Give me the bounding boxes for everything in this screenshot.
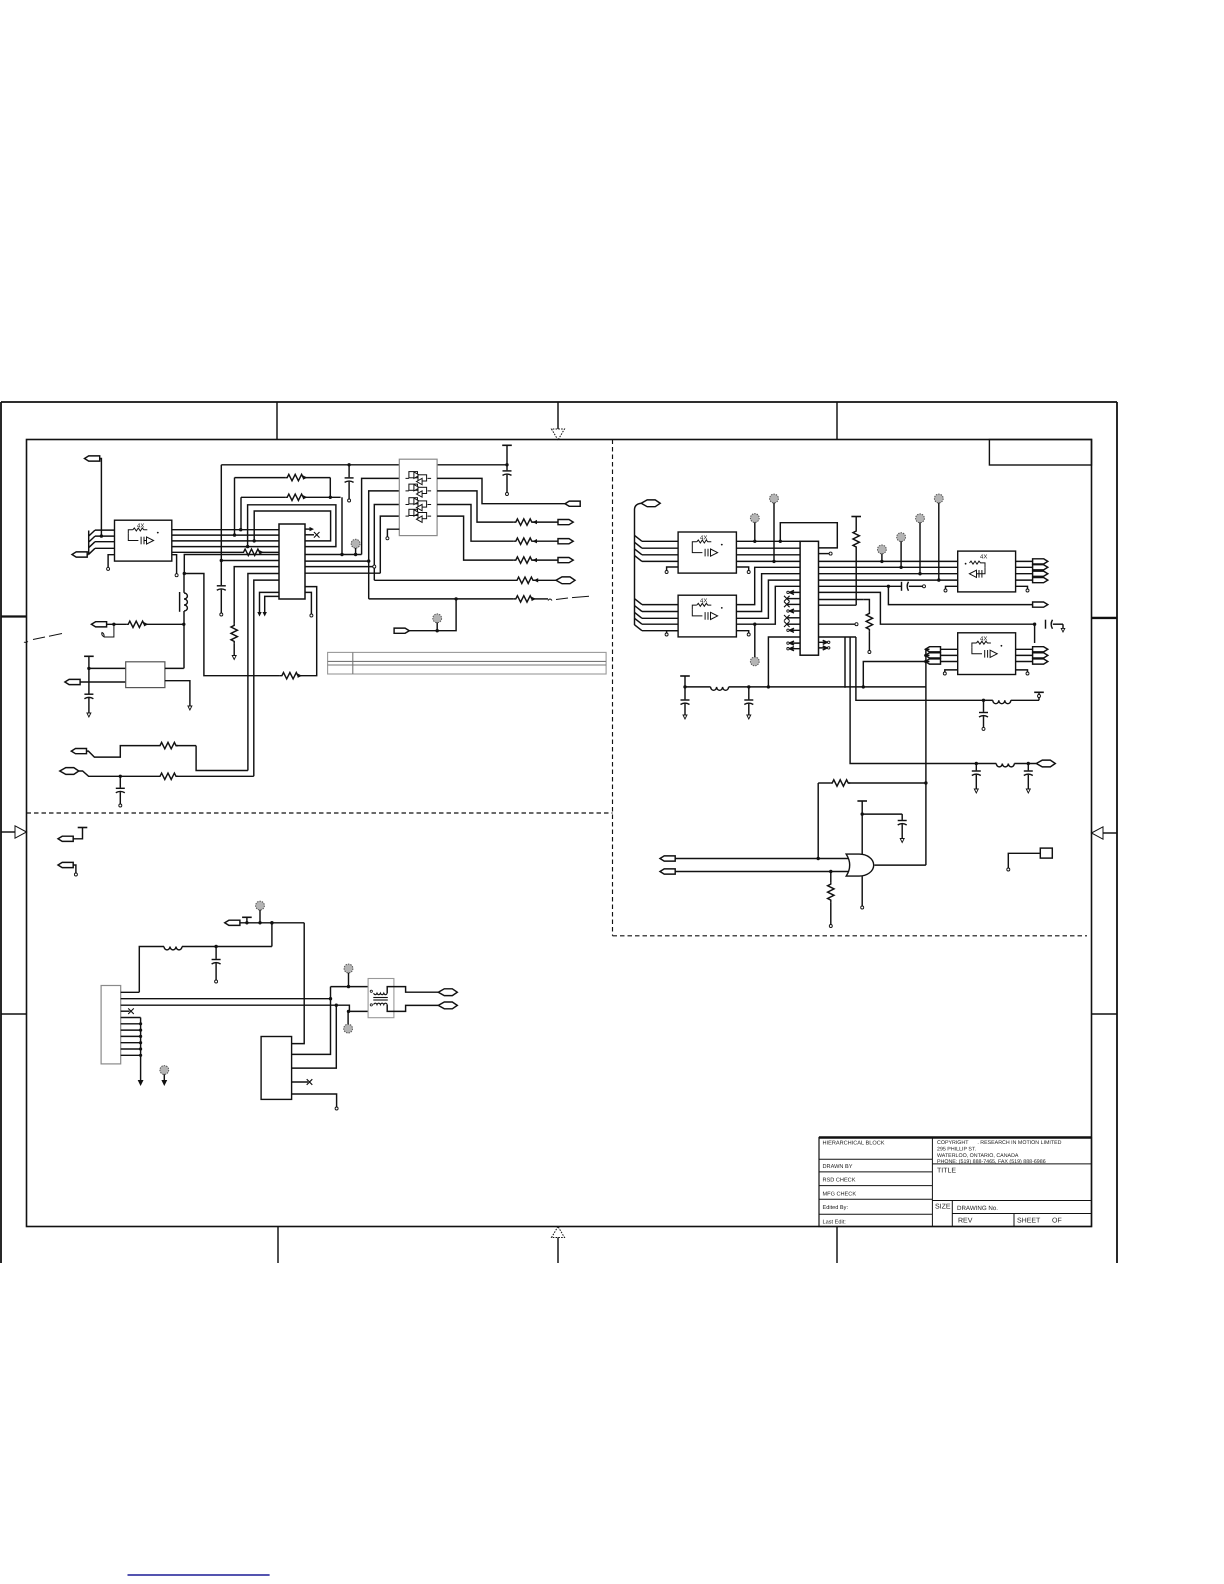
U8 input flags: [925, 647, 957, 664]
test point TP13: [344, 1011, 353, 1033]
resistor R3 wire: [172, 549, 279, 555]
wire U1 to L1: [184, 555, 279, 574]
node junctions: [354, 553, 371, 563]
svg-text:4X: 4X: [980, 554, 987, 561]
module K1: [261, 1037, 292, 1100]
svg-text:TITLE: TITLE: [937, 1168, 956, 1175]
second filter row: [975, 762, 1037, 767]
U8 output flags: [1016, 647, 1048, 664]
svg-text:SHEET: SHEET: [1017, 1218, 1041, 1225]
sheet outer frame left: [0, 402, 2, 1263]
svg-text:COPYRIGHT . RESEARCH IN M: COPYRIGHT . RESEARCH IN MOTION LIMITED: [937, 1140, 1062, 1146]
resistor R13: [158, 773, 254, 779]
U6 left pins column: [787, 590, 800, 594]
connector flag Q1: [635, 500, 661, 625]
U3 output row 1: [437, 478, 565, 503]
U7 internal RC-buffer mirrored: [965, 561, 985, 577]
connector flag Q3 oval: [1036, 760, 1055, 767]
U4 pin bottom-left: [667, 567, 679, 571]
power bar VCC3: [851, 517, 861, 530]
resistor R5: [514, 538, 558, 544]
svg-text:REV: REV: [958, 1218, 973, 1225]
test point TP4: [770, 494, 779, 563]
wire R14 to U6: [819, 604, 857, 606]
bundle wire 5: [819, 585, 902, 587]
U5 pin bottom-right: [736, 631, 748, 633]
wire L2 row continue: [768, 686, 926, 688]
power bar VCC1: [502, 445, 512, 466]
broken leader mark left: [24, 634, 62, 643]
test point TP12: [344, 964, 353, 987]
connector flag P2: [72, 552, 89, 557]
power bar VCC5: [857, 801, 867, 855]
capacitor C14: [212, 947, 221, 984]
wire drop to module K1: [292, 923, 305, 1044]
U3 output row 2: [437, 491, 514, 522]
svg-text:OF: OF: [1052, 1218, 1062, 1225]
transformer T2: [368, 979, 438, 1018]
zone tick top-right: [836, 402, 838, 440]
U5 internal RC-buffer symbol: [692, 603, 722, 619]
resistor R11: [126, 621, 184, 627]
wire loop A: [248, 505, 336, 547]
wire R1 right drop: [329, 478, 331, 498]
connector flag O3: [558, 539, 573, 544]
K1 pin4 nc: [292, 1079, 313, 1085]
top filter row: [982, 692, 1044, 703]
wire top rail: [221, 464, 507, 466]
K1 pin2 wire: [292, 987, 331, 1055]
top-right reference box: [989, 440, 1091, 466]
U1 pin nc X: [305, 532, 320, 538]
wire VCC to M1: [89, 667, 126, 669]
connector flag B4 oval: [438, 989, 457, 996]
zone tick left-lower: [1, 1013, 27, 1015]
resistor R9 vertical: [231, 623, 237, 659]
center mark arrow top: [552, 402, 565, 440]
connector flag P7: [60, 768, 158, 777]
staircase U5 to U6: [736, 567, 800, 604]
U7 pin bottom-right: [1016, 586, 1028, 589]
U1 bottom leg right: [305, 592, 311, 614]
resistor R2 row: [241, 494, 341, 500]
U6 right pins column: [819, 623, 859, 650]
node junction: [1033, 623, 1036, 626]
riser A: [844, 637, 846, 688]
capacitor C1: [345, 465, 354, 502]
center mark arrow bottom: [552, 1227, 565, 1264]
wire R2 right drop: [341, 497, 343, 554]
U1 bottom leg 1: [260, 592, 280, 612]
U2 pin bottom-left: [108, 555, 114, 568]
output row 5: [374, 579, 515, 581]
zone tick bottom-left: [277, 1227, 279, 1264]
IC U6: [800, 541, 818, 655]
U1 pin arrow right: [305, 527, 314, 531]
feedback loop wire: [184, 574, 316, 676]
sheet outer frame right: [1116, 402, 1118, 1263]
node junction: [214, 945, 217, 948]
wire U1 to lower row B: [254, 580, 279, 776]
zone tick bottom-right: [836, 1227, 838, 1264]
test point TP2: [433, 614, 442, 633]
U1 bottom leg 2: [265, 596, 279, 612]
resistor R6: [514, 557, 558, 563]
loop below U6: [768, 637, 856, 687]
resistor R7: [515, 577, 556, 583]
terminator block: [1007, 848, 1053, 871]
center mark arrow left: [1, 826, 27, 838]
wire loop B: [254, 511, 330, 541]
capacitor C8: [681, 687, 690, 719]
U8 pin bottom-right: [1016, 670, 1028, 672]
node junction row6: [454, 597, 457, 600]
U3 output row 4: [437, 516, 514, 560]
test point TP1: [351, 539, 360, 554]
resistor R10: [280, 673, 302, 679]
svg-text:295 PHILLIP ST.: 295 PHILLIP ST.: [937, 1147, 976, 1153]
delay block U8: [958, 633, 1016, 675]
U3 buffer glyphs: [406, 472, 432, 523]
wire R1 left drop: [234, 478, 236, 535]
node junction: [220, 559, 223, 562]
node junctions on bus: [233, 528, 256, 548]
riser B: [850, 637, 976, 764]
K1 pin3 wire: [292, 1005, 337, 1068]
inductor L2 row: [685, 687, 768, 690]
resistor R16 feedback row: [818, 780, 927, 786]
buffer array U3: [399, 459, 437, 535]
capacitor C7 series: [1046, 620, 1065, 632]
J1 pin3 wire: [121, 1004, 337, 1006]
capacitor C10: [979, 700, 988, 730]
power tap T1: [242, 917, 252, 924]
connector flag B1: [58, 828, 87, 842]
U7 output flags: [1016, 559, 1048, 583]
wire to U1: [221, 560, 279, 562]
delay block U4: [678, 532, 736, 573]
broken continuation mark: [548, 596, 589, 600]
center mark arrow right: [1092, 827, 1118, 839]
U3 output row 3: [437, 505, 514, 542]
feedback loop above U6: [780, 523, 837, 548]
svg-text:SIZE: SIZE: [935, 1204, 951, 1211]
bus entry spine right: [635, 535, 643, 561]
svg-text:MFG CHECK: MFG CHECK: [823, 1191, 857, 1197]
riser C: [856, 637, 984, 700]
zone tick left-upper: [1, 615, 27, 617]
power bar VCC4: [680, 676, 690, 689]
capacitor C4: [84, 694, 93, 717]
resistor R15 vertical: [863, 600, 872, 654]
U2 internal RC-buffer symbol: [128, 528, 158, 544]
resistor R12: [158, 742, 196, 748]
connector flag O5 oval: [556, 577, 575, 584]
inductor L3 row: [139, 947, 272, 993]
svg-text:Last Edit:: Last Edit:: [823, 1218, 847, 1225]
svg-text:PHONE: (519) 888-7465, FAX (51: PHONE: (519) 888-7465, FAX (519) 888-698…: [937, 1159, 1046, 1165]
capacitor C11: [972, 764, 981, 794]
resistor R17: [828, 870, 834, 928]
wires U1 to U3 staircase: [305, 555, 380, 574]
capacitor C3: [217, 586, 226, 616]
node junction L1 bottom: [182, 623, 185, 626]
connector flag O2: [558, 520, 573, 525]
test point TP10: [256, 901, 265, 924]
J1 pin4 nc: [121, 1008, 134, 1014]
capacitor C6 series: [902, 582, 926, 591]
test point TP3: [750, 514, 759, 543]
connector flag P3: [394, 628, 409, 633]
bus entry spine: [89, 530, 95, 554]
U7 pin bottom-left: [946, 586, 958, 589]
test point TP5: [750, 623, 759, 666]
J1 pin stubs bus: [121, 1018, 141, 1056]
connector J1: [101, 986, 121, 1064]
J1 pin1 wire: [121, 991, 140, 993]
resistor R14 vertical: [853, 529, 859, 605]
U4 pin bottom-right: [736, 567, 748, 571]
wire U1 to lower row A: [248, 574, 279, 771]
zone tick right-lower: [1092, 1013, 1118, 1015]
test point TP11: [160, 1066, 169, 1085]
wire to R15: [819, 599, 864, 601]
zone tick top-left: [276, 402, 278, 440]
capacitor C2: [503, 465, 512, 496]
net table: [328, 652, 606, 674]
capacitor C9: [744, 687, 753, 719]
capacitor C12: [1024, 764, 1033, 794]
OR gate G1: [846, 854, 874, 876]
J1 bus down arrow: [138, 1018, 142, 1086]
U2 pin bottom-right: [172, 555, 177, 574]
bus wires into U2: [95, 530, 115, 548]
svg-text:DRAWN BY: DRAWN BY: [823, 1164, 853, 1170]
G1 bottom stem: [861, 876, 864, 909]
connector flag P5: [65, 679, 126, 684]
wire flag3 net left drop: [863, 662, 926, 687]
bus wires into U4: [642, 541, 678, 561]
U8 pin bottom-left: [945, 670, 958, 672]
inductor L1: [180, 572, 188, 669]
wire M1 out right: [165, 667, 184, 669]
bus wires U2 to U1: [172, 530, 279, 547]
title block text: [823, 1140, 1062, 1225]
test points TP6-TP9: [878, 545, 887, 563]
connector flag P1: [85, 456, 104, 538]
wire C7 node down: [1034, 624, 1036, 643]
delay block U7: [958, 551, 1016, 592]
node junctions transformer feed: [329, 985, 350, 1013]
connector flag Q2: [1033, 602, 1048, 607]
U5 pin bottom-left: [667, 631, 679, 633]
output row 6: [369, 598, 514, 600]
connector flag P4: [91, 622, 126, 627]
U3 pin bottom-left: [387, 529, 399, 537]
sheet inner border: [27, 440, 1092, 1227]
delay block U5: [678, 595, 736, 637]
bus wires into U5: [642, 605, 678, 631]
OR gate G1 inputs: [660, 856, 848, 861]
node junction: [112, 623, 115, 626]
U1 left pin down to R9: [234, 567, 279, 624]
module M1: [126, 662, 165, 688]
J1 pin2 wire: [121, 998, 331, 1000]
connector flag B5 oval: [438, 1002, 457, 1009]
hierarchical block boundary dashed vertical: [612, 440, 614, 936]
resistor R1 row: [235, 474, 331, 480]
svg-text:DRAWING No.: DRAWING No.: [957, 1205, 998, 1212]
wire to transformer primary top: [331, 987, 374, 993]
svg-text:Edited By:: Edited By:: [823, 1204, 849, 1211]
node junctions: [747, 685, 865, 688]
connector flag P6: [71, 746, 158, 758]
wire R16 left drop: [817, 783, 819, 859]
connector flag B3: [225, 920, 305, 925]
capacitor C5: [116, 776, 125, 807]
hyperlink underline mark bottom: [128, 1574, 270, 1576]
wire M1 out 2: [165, 681, 190, 706]
resistor R8: [514, 596, 548, 602]
bundle U6 to U7: [819, 561, 958, 580]
connector flag O1: [565, 501, 580, 506]
U4 internal RC-buffer symbol: [692, 540, 722, 556]
svg-text:RSD CHECK: RSD CHECK: [823, 1178, 856, 1184]
wire drop to coil row: [271, 923, 273, 947]
hierarchical block boundary dashed horizontal right: [613, 935, 1088, 937]
capacitor C13: [862, 814, 907, 842]
wire U6 to C7 node: [819, 592, 1035, 624]
wires U4 to U6: [736, 541, 800, 561]
wire row A: [196, 746, 248, 771]
title block outline: [819, 1138, 1092, 1227]
wire riser flag TP: [405, 599, 456, 631]
node junction: [119, 775, 122, 778]
hierarchical block boundary dashed horizontal left: [27, 812, 613, 814]
wire to transformer primary bottom: [336, 1005, 373, 1011]
sheet outer frame top: [1, 401, 1117, 403]
IC U1: [279, 524, 305, 599]
net wire U8 flags to OR: [926, 649, 930, 865]
node junction on top rail: [347, 463, 350, 466]
svg-text:HIERARCHICAL BLOCK: HIERARCHICAL BLOCK: [823, 1141, 885, 1147]
U8 internal RC-buffer symbol: [972, 641, 1002, 657]
wire vertical left rail: [220, 465, 222, 585]
power bar VCC2: [84, 656, 94, 693]
staircase risers to U3: [362, 478, 400, 554]
U6 right pin circle: [819, 552, 833, 555]
connector flag B2: [58, 862, 77, 876]
wire R2 left drop: [240, 497, 242, 529]
node junction: [270, 921, 274, 925]
connector flag O4: [558, 558, 573, 563]
resistor R4: [514, 519, 558, 525]
node junction wire5: [887, 585, 890, 588]
stub hook: [102, 624, 114, 637]
G1 output wire: [875, 864, 926, 866]
K1 pin5 wire: [292, 1094, 339, 1110]
zone tick right-upper: [1092, 617, 1118, 619]
wire to flag Q2: [888, 586, 1032, 604]
delay block U2: [115, 520, 172, 561]
